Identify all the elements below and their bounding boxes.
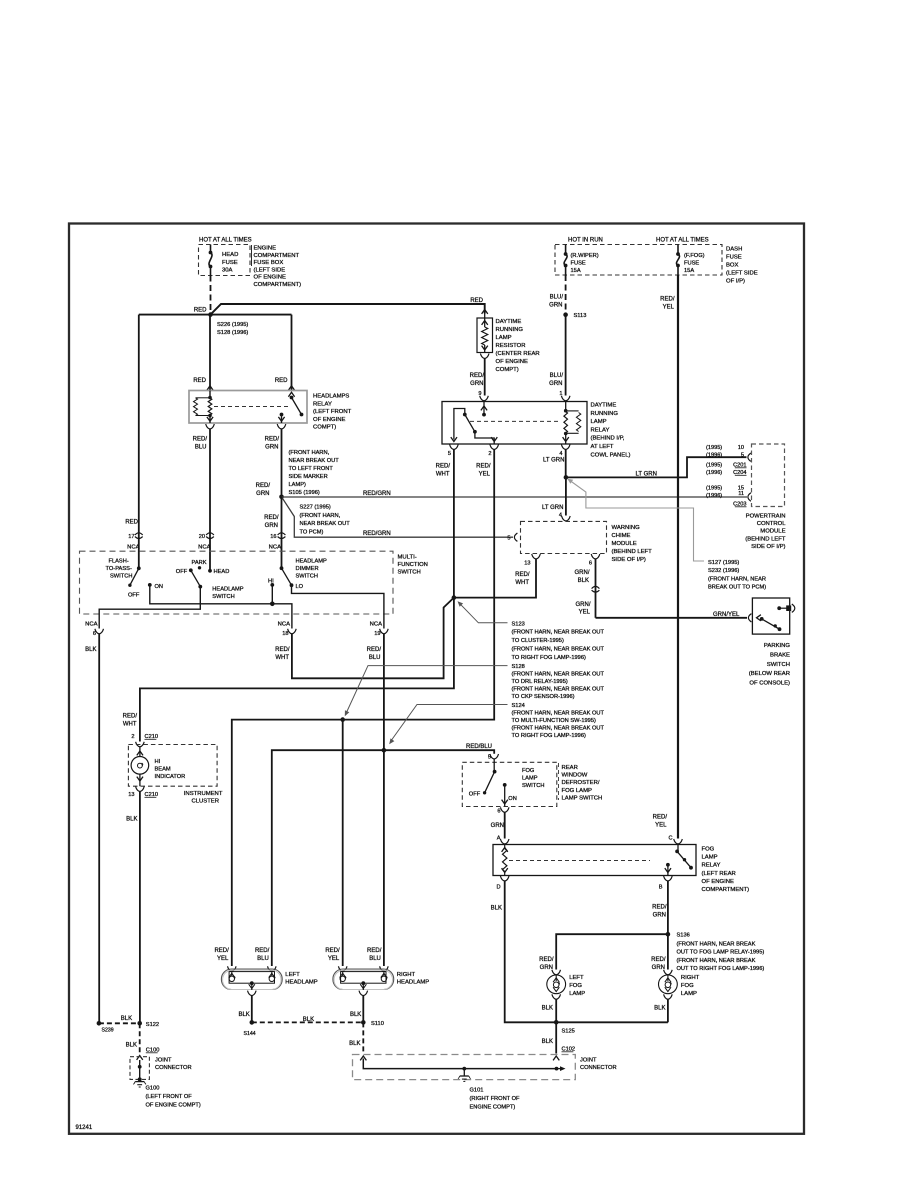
svg-text:RED: RED xyxy=(275,378,288,384)
svg-text:OF CONSOLE): OF CONSOLE) xyxy=(749,681,790,687)
svg-text:RED/: RED/ xyxy=(275,647,290,653)
svg-text:YEL: YEL xyxy=(328,956,340,962)
svg-text:RUNNING: RUNNING xyxy=(591,411,619,417)
svg-text:RED/: RED/ xyxy=(651,957,666,963)
svg-text:BLK: BLK xyxy=(303,1017,314,1023)
svg-text:6: 6 xyxy=(589,561,592,567)
wire RED/YEL from F.FOG fuse to fog lamp relay xyxy=(677,275,679,839)
svg-text:(BELOW REAR: (BELOW REAR xyxy=(749,671,790,677)
relay coil xyxy=(209,391,211,398)
svg-text:FUSE BOX: FUSE BOX xyxy=(254,260,284,266)
wire RED to relay coil xyxy=(209,315,211,391)
svg-text:13: 13 xyxy=(128,792,134,798)
svg-text:BLK: BLK xyxy=(126,1043,137,1049)
splice S125 xyxy=(556,1021,668,1023)
svg-text:S226 (1995): S226 (1995) xyxy=(217,322,248,328)
svg-text:LAMP SWITCH: LAMP SWITCH xyxy=(562,795,603,801)
svg-text:NCA: NCA xyxy=(85,622,98,628)
svg-text:FUSE: FUSE xyxy=(684,261,699,267)
svg-text:5: 5 xyxy=(741,453,744,459)
svg-text:S127 (1995): S127 (1995) xyxy=(708,560,739,566)
wire RED/WHT from DRL pin 5 xyxy=(453,450,455,598)
svg-text:GRN: GRN xyxy=(652,965,665,971)
wire RED/BLU to right headlamp xyxy=(383,750,385,966)
svg-text:LAMP: LAMP xyxy=(591,419,607,425)
svg-text:HEADLAMP: HEADLAMP xyxy=(212,587,243,593)
relay bottom connectors xyxy=(207,417,213,421)
svg-text:SWITCH: SWITCH xyxy=(522,783,544,789)
splice S110 xyxy=(361,1020,366,1025)
svg-text:19: 19 xyxy=(374,631,380,637)
wire BLU/GRN dashed to S113 xyxy=(565,275,567,315)
svg-text:(CENTER REAR: (CENTER REAR xyxy=(496,351,540,357)
svg-text:S144: S144 xyxy=(244,1031,256,1037)
svg-text:DIMMER: DIMMER xyxy=(296,566,319,572)
svg-text:91241: 91241 xyxy=(76,1125,93,1131)
svg-text:MODULE: MODULE xyxy=(612,541,637,547)
svg-text:WHT: WHT xyxy=(515,580,529,586)
svg-text:(BEHIND I/P,: (BEHIND I/P, xyxy=(591,436,625,442)
svg-text:RIGHT: RIGHT xyxy=(397,972,416,978)
svg-text:CONTROL: CONTROL xyxy=(757,521,787,527)
svg-text:(FRONT HARN,: (FRONT HARN, xyxy=(289,450,330,456)
svg-text:LAMP: LAMP xyxy=(702,855,718,861)
svg-text:(BEHIND LEFT: (BEHIND LEFT xyxy=(745,536,786,542)
svg-text:(LEFT FRONT OF: (LEFT FRONT OF xyxy=(146,1094,193,1100)
svg-text:BLK: BLK xyxy=(238,1012,249,1018)
svg-text:GRN/YEL: GRN/YEL xyxy=(713,612,740,618)
svg-text:(1995): (1995) xyxy=(706,463,722,469)
splice S105 xyxy=(279,495,284,500)
svg-text:GRN: GRN xyxy=(265,444,278,450)
svg-text:GRN: GRN xyxy=(549,381,562,387)
svg-text:TO CLUSTER-1995): TO CLUSTER-1995) xyxy=(512,638,564,644)
svg-text:FOG: FOG xyxy=(522,768,534,774)
DRL relay coil xyxy=(565,402,567,411)
svg-text:(1995): (1995) xyxy=(706,445,722,451)
svg-text:NCA: NCA xyxy=(278,622,291,628)
svg-text:RED/GRN: RED/GRN xyxy=(363,491,391,497)
svg-text:ENGINE: ENGINE xyxy=(254,246,277,252)
svg-text:5: 5 xyxy=(507,536,510,542)
left joint connector xyxy=(137,1056,143,1060)
svg-text:ON: ON xyxy=(508,796,517,802)
svg-text:TO MULTI-FUNCTION SW-1995): TO MULTI-FUNCTION SW-1995) xyxy=(512,718,596,724)
daytime running lamp resistor xyxy=(482,310,488,314)
svg-text:HI: HI xyxy=(155,759,161,765)
svg-text:FOG: FOG xyxy=(702,847,715,853)
svg-text:SIDE MARKER: SIDE MARKER xyxy=(289,474,328,480)
svg-text:(LEFT REAR: (LEFT REAR xyxy=(702,871,736,877)
svg-text:SWITCH: SWITCH xyxy=(110,574,132,580)
wire jog to resistor feed xyxy=(211,304,485,315)
fog lamp switch label xyxy=(558,763,560,800)
svg-text:(FRONT HARN, NEAR BREAK: (FRONT HARN, NEAR BREAK xyxy=(677,941,756,947)
svg-text:RED/: RED/ xyxy=(123,714,138,720)
svg-text:PARK: PARK xyxy=(192,560,207,566)
svg-text:GRN: GRN xyxy=(470,381,483,387)
svg-text:S136: S136 xyxy=(677,933,690,939)
svg-text:(BEHIND LEFT: (BEHIND LEFT xyxy=(612,549,653,555)
svg-text:WHT: WHT xyxy=(436,471,450,477)
svg-text:(FRONT HARN, NEAR BREAK OUT: (FRONT HARN, NEAR BREAK OUT xyxy=(512,726,605,732)
splice S128 on RED/YEL xyxy=(340,717,345,722)
svg-text:FLASH-: FLASH- xyxy=(109,559,129,565)
splice junction S226/S128 xyxy=(208,312,213,317)
svg-text:BOX: BOX xyxy=(726,263,739,269)
splice LT GRN junction xyxy=(564,475,569,480)
ground G101 xyxy=(463,1069,465,1076)
wire headlamp switch common to pin 6 xyxy=(99,587,200,629)
svg-text:RUNNING: RUNNING xyxy=(496,327,524,333)
svg-text:SWITCH: SWITCH xyxy=(296,574,318,580)
svg-text:RED/: RED/ xyxy=(255,948,270,954)
svg-text:(F.FOG): (F.FOG) xyxy=(684,253,705,259)
wire BLK from fog relay pin D xyxy=(505,881,557,1022)
svg-text:AT LEFT: AT LEFT xyxy=(591,444,614,450)
svg-text:SWITCH: SWITCH xyxy=(398,570,421,576)
svg-text:A: A xyxy=(497,836,501,842)
svg-text:17: 17 xyxy=(128,534,134,540)
svg-text:OUT TO RIGHT FOG LAMP-1996): OUT TO RIGHT FOG LAMP-1996) xyxy=(677,966,765,972)
left fog lamp xyxy=(552,970,561,975)
svg-text:BLK: BLK xyxy=(126,817,137,823)
svg-text:GRN/: GRN/ xyxy=(575,570,590,576)
svg-text:BREAK OUT TO PCM): BREAK OUT TO PCM) xyxy=(708,585,766,591)
svg-text:S110: S110 xyxy=(371,1021,384,1027)
svg-text:HEAD: HEAD xyxy=(222,252,238,258)
svg-text:OF I/P): OF I/P) xyxy=(726,279,745,285)
svg-text:WINDOW: WINDOW xyxy=(562,773,588,779)
S128 leader xyxy=(346,666,508,714)
svg-text:13: 13 xyxy=(524,561,530,567)
svg-text:RED: RED xyxy=(125,520,138,526)
svg-text:RED/BLU: RED/BLU xyxy=(466,744,492,750)
svg-text:SIDE OF I/P): SIDE OF I/P) xyxy=(612,557,646,563)
wire GRN/YEL to parking brake switch xyxy=(596,617,748,619)
wire RED/GRN to S105 xyxy=(281,429,283,497)
wire BLK dashed to right joint connector xyxy=(362,1022,364,1053)
svg-text:FOG LAMP: FOG LAMP xyxy=(562,788,593,794)
svg-text:COMPT): COMPT) xyxy=(313,425,336,431)
svg-text:CONNECTOR: CONNECTOR xyxy=(580,1065,617,1071)
fog switch pin 6 wire GRN xyxy=(500,807,509,812)
svg-text:SWITCH: SWITCH xyxy=(767,662,790,668)
svg-text:TO CKP SENSOR-1996): TO CKP SENSOR-1996) xyxy=(512,694,575,700)
svg-text:CHIME: CHIME xyxy=(612,533,631,539)
svg-text:RED/: RED/ xyxy=(515,572,530,578)
svg-text:RED/: RED/ xyxy=(265,437,280,443)
svg-text:LEFT: LEFT xyxy=(569,975,584,981)
svg-text:INSTRUMENT: INSTRUMENT xyxy=(184,791,223,797)
svg-text:BLU: BLU xyxy=(369,956,381,962)
wire RED/YEL from DRL pin 2 to headlamps xyxy=(232,450,494,967)
svg-text:5: 5 xyxy=(488,755,491,761)
svg-text:15A: 15A xyxy=(571,268,581,274)
wire RED/GRN from fog relay pin B xyxy=(667,881,669,934)
svg-text:FUNCTION: FUNCTION xyxy=(398,562,428,568)
svg-text:HEADLAMP: HEADLAMP xyxy=(285,980,317,986)
svg-text:BLK: BLK xyxy=(542,1006,553,1012)
relay output pin xyxy=(280,413,284,417)
svg-text:GRN/: GRN/ xyxy=(576,602,591,608)
svg-text:(R.WIPER): (R.WIPER) xyxy=(571,253,599,259)
svg-text:(RIGHT FRONT OF: (RIGHT FRONT OF xyxy=(470,1096,521,1102)
svg-text:HEADLAMP: HEADLAMP xyxy=(296,559,327,565)
svg-text:(1996): (1996) xyxy=(706,470,722,476)
fuse F.FOG 15A xyxy=(677,245,679,255)
svg-text:18: 18 xyxy=(282,631,288,637)
svg-text:NCA: NCA xyxy=(198,545,211,551)
DRL relay pin 9 stub xyxy=(483,402,485,415)
svg-text:B: B xyxy=(659,885,663,891)
svg-text:LO: LO xyxy=(296,584,304,590)
svg-text:RED: RED xyxy=(470,298,483,304)
svg-text:RED/: RED/ xyxy=(256,483,271,489)
svg-text:S105 (1996): S105 (1996) xyxy=(289,490,320,496)
svg-text:BLU/: BLU/ xyxy=(550,373,564,379)
svg-text:RELAY: RELAY xyxy=(313,401,332,407)
svg-text:NCA: NCA xyxy=(127,545,140,551)
chime pin 6 wire GRN/BLK xyxy=(591,554,600,559)
svg-text:TO RIGHT FOG LAMP-1996): TO RIGHT FOG LAMP-1996) xyxy=(512,655,586,661)
DRL relay switch xyxy=(454,409,465,440)
right joint connector xyxy=(360,1056,366,1060)
svg-text:4: 4 xyxy=(559,451,562,457)
svg-text:OFF: OFF xyxy=(469,792,481,798)
S124 leader xyxy=(391,705,508,742)
svg-text:OFF: OFF xyxy=(128,593,140,599)
svg-text:LEFT: LEFT xyxy=(285,972,300,978)
ground G100 xyxy=(135,1081,144,1083)
svg-text:TO RIGHT FOG LAMP-1996): TO RIGHT FOG LAMP-1996) xyxy=(512,733,586,739)
svg-text:(FRONT HARN, NEAR BREAK OUT: (FRONT HARN, NEAR BREAK OUT xyxy=(512,672,605,678)
svg-text:ON: ON xyxy=(155,584,164,590)
engine compartment fuse box (dashed) xyxy=(199,245,251,276)
svg-text:GRN: GRN xyxy=(549,302,562,308)
svg-text:BLK: BLK xyxy=(578,578,589,584)
S123 leader xyxy=(459,603,508,623)
warning chime module box (dashed) xyxy=(521,521,607,553)
border frame xyxy=(69,224,804,1134)
svg-text:COMPARTMENT): COMPARTMENT) xyxy=(702,887,750,893)
svg-text:INDICATOR: INDICATOR xyxy=(155,774,186,780)
wire BLK dashed S239 to S122 xyxy=(99,1022,140,1024)
svg-text:LT GRN: LT GRN xyxy=(543,458,564,464)
wire RED/GRN jog to chime pin 5 xyxy=(282,497,514,537)
svg-text:SIDE OF I/P): SIDE OF I/P) xyxy=(751,544,785,550)
S127 leader line xyxy=(569,480,705,562)
splice S124 on RED/BLU xyxy=(382,748,387,753)
svg-text:RED/: RED/ xyxy=(653,815,668,821)
svg-text:HOT AT ALL TIMES: HOT AT ALL TIMES xyxy=(656,238,709,244)
svg-text:S122: S122 xyxy=(146,1022,159,1028)
svg-text:S128: S128 xyxy=(512,664,525,670)
svg-text:FOG: FOG xyxy=(569,983,582,989)
wire BLK dashed to C100 xyxy=(139,1023,141,1053)
svg-text:5: 5 xyxy=(448,451,451,457)
svg-text:20: 20 xyxy=(199,534,205,540)
svg-text:BLU: BLU xyxy=(257,956,269,962)
svg-text:NEAR BREAK OUT: NEAR BREAK OUT xyxy=(300,521,351,527)
svg-text:TO LEFT FRONT: TO LEFT FRONT xyxy=(289,466,334,472)
fog relay dashed link xyxy=(509,860,650,862)
parking brake switch box xyxy=(752,598,789,634)
svg-text:D: D xyxy=(496,885,500,891)
svg-text:TO-PASS-: TO-PASS- xyxy=(106,566,132,572)
svg-text:RED/: RED/ xyxy=(367,948,382,954)
svg-text:FOG: FOG xyxy=(681,983,694,989)
svg-text:SWITCH: SWITCH xyxy=(212,594,234,600)
svg-text:GRN: GRN xyxy=(491,823,504,829)
fog lamp switch pin 5 xyxy=(490,754,499,759)
svg-text:11: 11 xyxy=(738,491,744,497)
DRL relay dashed link xyxy=(470,420,561,422)
svg-text:(1996): (1996) xyxy=(706,493,722,499)
chime pin 13 wire RED/WHT xyxy=(532,554,541,559)
svg-text:S232 (1996): S232 (1996) xyxy=(708,568,739,574)
wire BLK to C102 xyxy=(555,1022,557,1053)
svg-text:2: 2 xyxy=(131,734,134,740)
instrument cluster pin 13 xyxy=(136,787,145,792)
svg-text:FUSE: FUSE xyxy=(726,255,742,261)
svg-text:RED/: RED/ xyxy=(367,647,382,653)
svg-text:LT GRN: LT GRN xyxy=(636,471,657,477)
wire RED/YEL to right headlamp xyxy=(342,720,344,966)
svg-text:BRAKE: BRAKE xyxy=(770,652,790,658)
svg-text:DAYTIME: DAYTIME xyxy=(496,319,522,325)
svg-text:NEAR BREAK OUT: NEAR BREAK OUT xyxy=(289,458,340,464)
svg-text:15A: 15A xyxy=(684,268,694,274)
fog relay bottom pins xyxy=(500,876,509,881)
splice S113 xyxy=(563,312,568,317)
svg-text:YEL: YEL xyxy=(579,610,591,616)
svg-text:BLK: BLK xyxy=(491,906,502,912)
svg-text:OF ENGINE: OF ENGINE xyxy=(313,417,345,423)
svg-text:TO PCM): TO PCM) xyxy=(300,529,324,535)
svg-text:(LEFT SIDE: (LEFT SIDE xyxy=(726,271,758,277)
DRL relay bottom connectors xyxy=(450,445,459,450)
svg-text:(FRONT HARN, NEAR BREAK OUT: (FRONT HARN, NEAR BREAK OUT xyxy=(512,630,605,636)
svg-text:LAMP: LAMP xyxy=(522,776,538,782)
wire RED/BLU bus to left headlamp and fog switch xyxy=(272,750,494,966)
svg-text:BLU: BLU xyxy=(195,444,207,450)
svg-text:S123: S123 xyxy=(512,621,525,627)
svg-text:PARKING: PARKING xyxy=(764,643,790,649)
svg-text:COMPARTMENT): COMPARTMENT) xyxy=(254,282,302,288)
svg-text:RESISTOR: RESISTOR xyxy=(496,343,526,349)
svg-text:BLU: BLU xyxy=(369,655,381,661)
svg-text:WHT: WHT xyxy=(123,721,137,727)
wire BLK from cluster xyxy=(139,792,141,1024)
svg-text:(LEFT SIDE: (LEFT SIDE xyxy=(254,267,286,273)
svg-text:COWL PANEL): COWL PANEL) xyxy=(591,452,631,458)
fog relay coil xyxy=(504,845,506,849)
splice RED/WHT junction xyxy=(452,595,457,600)
svg-text:JOINT: JOINT xyxy=(580,1058,597,1064)
svg-text:BLK: BLK xyxy=(85,647,96,653)
svg-text:BLK: BLK xyxy=(349,1041,360,1047)
svg-text:BEAM: BEAM xyxy=(155,767,171,773)
powertrain control module box (dashed) xyxy=(752,444,785,507)
svg-text:RIGHT: RIGHT xyxy=(681,975,700,981)
wire BLK dashed S144 to S110 xyxy=(252,1021,363,1023)
svg-text:BLU/: BLU/ xyxy=(550,295,564,301)
svg-text:OUT TO FOG LAMP RELAY-1995): OUT TO FOG LAMP RELAY-1995) xyxy=(677,950,765,956)
svg-text:FUSE: FUSE xyxy=(571,261,586,267)
svg-text:YEL: YEL xyxy=(655,822,667,828)
svg-text:RED/: RED/ xyxy=(539,957,554,963)
svg-text:RED/GRN: RED/GRN xyxy=(363,531,391,537)
svg-text:MODULE: MODULE xyxy=(760,529,785,535)
svg-text:CONNECTOR: CONNECTOR xyxy=(155,1065,192,1071)
svg-text:GRN: GRN xyxy=(265,523,278,529)
svg-text:30A: 30A xyxy=(222,268,233,274)
svg-text:HEAD: HEAD xyxy=(214,569,230,575)
svg-text:DAYTIME: DAYTIME xyxy=(591,403,617,409)
wire horizontal RED bus xyxy=(139,314,292,316)
svg-text:GRN: GRN xyxy=(256,491,269,497)
wire RED/GRN to right fog lamp xyxy=(667,934,669,969)
svg-text:(FRONT HARN, NEAR BREAK OUT: (FRONT HARN, NEAR BREAK OUT xyxy=(512,687,605,693)
svg-text:JOINT: JOINT xyxy=(155,1058,172,1064)
svg-text:G100: G100 xyxy=(146,1086,160,1092)
svg-text:(FRONT HARN, NEAR: (FRONT HARN, NEAR xyxy=(708,576,766,582)
svg-text:S239: S239 xyxy=(102,1028,114,1034)
fuse R.WIPER 15A xyxy=(565,245,567,255)
svg-text:ENGINE COMPT): ENGINE COMPT) xyxy=(470,1105,516,1111)
engine compartment fuse box label xyxy=(251,245,253,266)
wire LT GRN from DRL pin 4 xyxy=(565,450,567,478)
svg-text:OF ENGINE: OF ENGINE xyxy=(496,359,528,365)
svg-text:10: 10 xyxy=(738,445,744,451)
svg-text:RED/: RED/ xyxy=(470,373,485,379)
svg-text:RED/: RED/ xyxy=(476,464,491,470)
dash fuse box (dashed) xyxy=(555,245,722,276)
svg-text:RED/: RED/ xyxy=(436,464,451,470)
wire RED/GRN to left fog lamp xyxy=(556,934,668,969)
splice S136 xyxy=(666,932,671,937)
svg-text:WHT: WHT xyxy=(275,655,289,661)
svg-text:DEFROSTER/: DEFROSTER/ xyxy=(562,780,600,786)
wire HI contact to pin 18 bus xyxy=(271,585,273,604)
svg-text:(FRONT HARN, NEAR BREAK: (FRONT HARN, NEAR BREAK xyxy=(677,958,756,964)
svg-text:S227 (1995): S227 (1995) xyxy=(300,505,331,511)
svg-text:LT GRN: LT GRN xyxy=(542,505,563,511)
wire LT GRN to chime module pin 4 xyxy=(565,477,567,515)
svg-text:OFF: OFF xyxy=(176,569,188,575)
svg-text:(FRONT HARN,: (FRONT HARN, xyxy=(300,513,341,519)
svg-text:(FRONT HARN, NEAR BREAK OUT: (FRONT HARN, NEAR BREAK OUT xyxy=(512,711,605,717)
headlamps relay box xyxy=(189,391,307,424)
svg-text:CLUSTER: CLUSTER xyxy=(192,799,220,805)
svg-text:NCA: NCA xyxy=(370,622,383,628)
svg-text:S113: S113 xyxy=(574,313,587,319)
svg-text:RED/: RED/ xyxy=(214,948,229,954)
svg-text:S125: S125 xyxy=(562,1029,575,1035)
svg-text:OF ENGINE: OF ENGINE xyxy=(702,879,734,885)
splice S122 xyxy=(137,1021,142,1026)
wire RED/GRN to PCM xyxy=(282,496,748,498)
svg-text:LAMP: LAMP xyxy=(569,991,585,997)
svg-text:S124: S124 xyxy=(512,703,525,709)
svg-text:2: 2 xyxy=(488,451,491,457)
svg-text:LAMP): LAMP) xyxy=(289,482,306,488)
svg-text:MULTI-: MULTI- xyxy=(398,555,417,561)
svg-text:16: 16 xyxy=(270,534,276,540)
svg-text:RELAY: RELAY xyxy=(591,427,610,433)
wire right fog lamp BLK down xyxy=(667,1021,669,1023)
